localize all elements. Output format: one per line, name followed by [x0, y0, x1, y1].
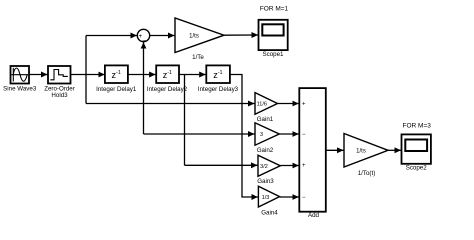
svg-text:z-1: z-1	[112, 70, 121, 80]
svg-text:FOR M=1: FOR M=1	[260, 5, 289, 12]
svg-text:Gain1: Gain1	[257, 116, 274, 123]
svg-text:3: 3	[260, 132, 263, 138]
svg-text:FOR M=3: FOR M=3	[403, 123, 432, 130]
svg-text:+: +	[302, 102, 306, 108]
svg-text:Hold3: Hold3	[51, 92, 68, 99]
svg-text:Integer Delay3: Integer Delay3	[198, 86, 239, 93]
svg-text:z-1: z-1	[163, 70, 172, 80]
svg-text:Gain3: Gain3	[257, 178, 274, 185]
svg-text:Integer Delay1: Integer Delay1	[96, 86, 137, 93]
svg-text:+: +	[302, 163, 306, 169]
svg-text:−: −	[302, 132, 306, 138]
svg-text:1/3: 1/3	[262, 195, 270, 201]
svg-text:Scope2: Scope2	[406, 165, 428, 172]
svg-text:Scope1: Scope1	[263, 51, 285, 58]
svg-text:z-1: z-1	[213, 70, 222, 80]
svg-text:Sine Wave3: Sine Wave3	[3, 86, 37, 93]
svg-text:Add: Add	[308, 212, 320, 219]
svg-text:Gain2: Gain2	[257, 147, 274, 154]
svg-text:1/Te: 1/Te	[192, 54, 204, 61]
svg-text:Integer Delay2: Integer Delay2	[147, 86, 188, 93]
svg-text:1/To(t): 1/To(t)	[358, 170, 376, 177]
svg-text:Gain4: Gain4	[261, 209, 278, 216]
svg-text:11/6: 11/6	[257, 102, 267, 108]
svg-text:1/ts: 1/ts	[189, 34, 199, 40]
svg-text:−: −	[302, 195, 306, 201]
svg-text:−: −	[142, 37, 146, 44]
svg-text:1/ts: 1/ts	[356, 149, 366, 155]
svg-text:3/2: 3/2	[260, 164, 268, 170]
